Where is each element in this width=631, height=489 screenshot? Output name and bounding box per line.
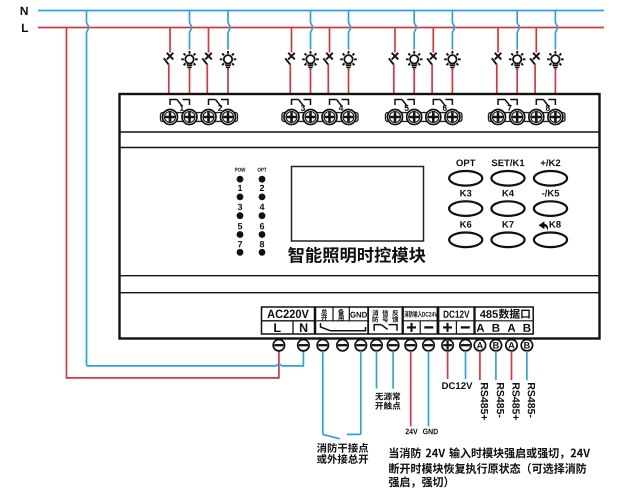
label GND (24V return) [423, 429, 438, 435]
LED indicator, row 4 left [237, 231, 244, 238]
lamp LP6 [444, 51, 461, 69]
label - (DC24V) [424, 326, 433, 328]
external master switch symbol [323, 434, 361, 438]
screw terminal 5 (channel 3) [284, 110, 299, 125]
bottom terminal RS485 B [490, 340, 501, 351]
label 485数据口 [480, 310, 498, 318]
label RS485+ (rotated) [481, 383, 488, 420]
wire: RS485+ [511, 351, 513, 380]
wire: N drop to lamp, channel 8 (hops over L bus) [555, 11, 557, 50]
terminal rail, channels 7-8 [489, 113, 565, 122]
LED number 8 [260, 241, 264, 247]
wire: DC12V- (blue) [465, 351, 467, 379]
wire: L feed drop to module L terminal [67, 28, 279, 378]
wire: N drop to lamp, channel 5 (hops over L bus) [414, 11, 416, 50]
N bus label [21, 7, 28, 15]
label + (DC12V) [443, 323, 452, 332]
wire: DC24V- (blue) [428, 351, 430, 426]
label RS485- (rotated) [497, 383, 504, 417]
wire: switch to relay terminal 9 [393, 64, 395, 100]
terminal label box 总开/备用/GND [316, 307, 369, 334]
switch S6 [427, 53, 437, 65]
LED indicator, row 3 right [259, 212, 266, 219]
screw terminal 9 (channel 5) [388, 110, 403, 125]
wire: N drop to lamp, channel 6 (hops over L bus) [452, 11, 454, 50]
screw terminal 3 (channel 2) [201, 110, 216, 125]
wire: DC24V+ (red) [410, 351, 412, 426]
wire: lamp to relay terminal 2 [189, 68, 191, 100]
switch S5 [389, 53, 399, 65]
master switch symbol between 总开 and GND [321, 323, 366, 331]
terminal label box 消防信号/反馈 [368, 307, 402, 334]
bottom terminal GND [355, 340, 366, 351]
screw terminal 12 (channel 6) [445, 110, 460, 125]
LED indicator, row 4 right [259, 231, 266, 238]
label 485 B [524, 324, 531, 332]
bottom terminal L [273, 340, 284, 351]
button SET/K1 [491, 171, 524, 186]
wire: switch to relay terminal 15 [534, 64, 536, 100]
wire: RS485- [526, 351, 528, 380]
module horizontal line (top of face panel) [120, 147, 600, 149]
LED number 3 [238, 204, 242, 210]
lamp LP4 [340, 51, 357, 69]
screw terminal 6 (channel 3) [303, 110, 318, 125]
bottom terminal DC24V- [423, 340, 434, 351]
terminal rail, channels 1-2 [161, 113, 238, 122]
wire: L drop to switch, channel 7 [497, 28, 499, 53]
relay contact K8 [536, 100, 555, 107]
label RS485- (rotated) [528, 383, 535, 417]
LED indicator, row 1 left [237, 176, 244, 183]
label 24V [406, 429, 418, 435]
LED indicator, row 5 left [237, 249, 244, 256]
button K8 [534, 233, 567, 248]
label RS485+ (rotated) [512, 383, 519, 420]
LED number 5 [238, 223, 242, 229]
label - (DC12V) [461, 326, 470, 328]
button label K4 [503, 190, 514, 197]
button label K7 [503, 221, 514, 228]
button K6 [449, 233, 482, 248]
annotation 消防干接点/或外接总开 [317, 443, 368, 464]
relay number 7 [508, 105, 512, 111]
label 485 A [477, 324, 485, 332]
lamp LP3 [302, 51, 319, 69]
module horizontal line (top of bottom terminal area) [120, 292, 600, 294]
relay contact K7 [498, 100, 517, 107]
wire: L drop to switch, channel 4 [329, 28, 331, 53]
LED number 6 [260, 223, 264, 229]
screw terminal 10 (channel 5) [407, 110, 422, 125]
LED number 7 [238, 241, 242, 247]
module outline: intelligent lighting timer module [120, 94, 600, 339]
label 反馈 [392, 310, 398, 323]
label DC12V [444, 310, 470, 317]
switch S3 [285, 53, 295, 65]
wire: L drop to switch, channel 1 [169, 28, 171, 53]
label 消防输入DC24V [404, 311, 422, 318]
relay number 3 [301, 105, 305, 111]
bottom terminal fire-signal [371, 340, 382, 351]
bottom terminal RS485 B2 [521, 340, 532, 351]
label N [300, 323, 307, 332]
screw terminal 1 (channel 1) [163, 110, 178, 125]
bottom terminal RS485 A [474, 340, 485, 351]
wire: master-on (blue) down to external switch [322, 351, 324, 434]
button K4 [491, 201, 524, 216]
wire: N bus line [38, 10, 604, 12]
LED number 4 [260, 204, 265, 210]
button K3 [449, 201, 482, 216]
wire: N drop to lamp, channel 2 (hops over L bus) [228, 11, 230, 50]
wire: N drop to lamp, channel 3 (hops over L bus) [311, 11, 313, 50]
wire: switch to relay terminal 1 [168, 64, 170, 100]
screw terminal 4 (channel 2) [221, 110, 236, 125]
lamp LP2 [220, 51, 237, 69]
bottom terminal DC12V- [460, 340, 471, 351]
LED number 1 [238, 185, 242, 191]
label GND [350, 312, 367, 318]
button -/K5 [534, 201, 567, 216]
label 485 B [493, 324, 500, 332]
wire: switch to relay terminal 13 [496, 64, 498, 100]
terminal label box DC12V [439, 307, 475, 334]
bottom terminal DC12V+ [442, 340, 453, 351]
wire: lamp to relay terminal 16 [554, 68, 556, 100]
bottom terminal RS485 A2 [506, 340, 517, 351]
wire: N feed drop to module N terminal (hops over L bus and over red wire) [87, 11, 89, 366]
relay number 6 [443, 105, 447, 111]
LED indicator, row 1 right [259, 176, 266, 183]
wire: L drop to switch, channel 3 [291, 28, 293, 53]
wire: switch to relay terminal 5 [289, 64, 291, 100]
LED column label POW [235, 168, 245, 172]
wire: L drop to switch, channel 8 [535, 28, 537, 53]
LED indicator, row 5 right [259, 249, 266, 256]
screw terminal 16 (channel 8) [548, 110, 563, 125]
relay number 8 [546, 105, 550, 111]
wire: fire-signal contact lead 2 (blue) [392, 351, 394, 389]
switch S1 [164, 53, 174, 65]
bottom terminal spare [337, 340, 348, 351]
wire: switch to relay terminal 7 [327, 64, 329, 100]
LED indicator, row 3 left [237, 212, 244, 219]
switch S7 [492, 53, 502, 65]
button label OPT [456, 159, 475, 166]
wire: RS485+ [479, 351, 481, 380]
wire: L bus line [38, 27, 604, 29]
LED indicator, row 2 left [237, 194, 244, 201]
LED number 2 [260, 185, 264, 191]
terminal label box 485数据口 [475, 307, 533, 334]
label 信号 [382, 310, 388, 323]
wire: N drop to lamp, channel 7 (hops over L bus) [517, 11, 519, 50]
label 总开 [321, 309, 327, 321]
relay contact K1 [170, 100, 190, 107]
button label +/K2 [541, 159, 561, 166]
wire: L drop to switch, channel 5 [394, 28, 396, 53]
label AC220V [267, 310, 308, 318]
wire: DC12V+ (red) [447, 351, 449, 379]
screw terminal 15 (channel 8) [529, 110, 544, 125]
wire: lamp to relay terminal 10 [413, 68, 415, 100]
LCD display window [292, 167, 424, 242]
button K7 [491, 233, 524, 248]
wire: RS485- [495, 351, 497, 380]
button label SET/K1 [492, 159, 525, 166]
label 备用 [338, 309, 344, 321]
label L [274, 323, 280, 332]
switch S2 [202, 53, 212, 65]
terminal rail, channels 5-6 [386, 113, 462, 122]
annotation paragraph about fire 24V input behaviour [389, 447, 590, 487]
lamp LP8 [547, 51, 564, 69]
relay contact K6 [433, 100, 452, 107]
relay contact K3 [292, 100, 311, 107]
button label K6 [460, 221, 471, 228]
wire: lamp to relay terminal 4 [227, 68, 229, 100]
wire: switch to relay terminal 3 [206, 64, 208, 100]
wire: N drop to lamp, channel 4 (hops over L bus) [349, 11, 351, 50]
lamp LP5 [406, 51, 423, 69]
bottom terminal feedback [387, 340, 398, 351]
module horizontal line (below top terminals) [120, 131, 600, 133]
screw terminal 7 (channel 4) [322, 110, 337, 125]
label + (DC24V) [407, 323, 416, 332]
wire: N drop to lamp, channel 1 (hops over L bus) [190, 11, 192, 50]
relay contact K5 [395, 100, 414, 107]
button +/K2 [534, 171, 567, 186]
wire: fire-signal contact lead 1 (blue) [376, 351, 378, 389]
module horizontal line (bottom of face panel) [120, 275, 600, 277]
LED indicator, row 2 right [259, 194, 266, 201]
relay contact K4 [330, 100, 349, 107]
lamp LP1 [181, 51, 198, 69]
wire: L drop to switch, channel 2 [208, 28, 210, 53]
label 消防 [372, 310, 378, 323]
wire: L drop to switch, channel 6 [432, 28, 434, 53]
bottom terminal master-on [317, 340, 328, 351]
wire: GND (blue) down to external switch [360, 351, 362, 434]
wire: lamp to relay terminal 14 [516, 68, 518, 100]
screw terminal 2 (channel 1) [182, 110, 197, 125]
terminal label box 消防输入DC24V [403, 307, 437, 334]
label DC12V (output) [442, 382, 472, 389]
wire: switch to relay terminal 11 [431, 64, 433, 100]
button label -/K5 [542, 190, 559, 197]
screw terminal 8 (channel 4) [341, 110, 356, 125]
fire-signal contact symbol [374, 325, 397, 331]
relay number 4 [339, 105, 344, 111]
button label K3 [460, 190, 471, 197]
bottom terminal N [298, 340, 309, 351]
button label K8 with return arrow [550, 221, 561, 228]
relay number 1 [180, 105, 184, 111]
annotation 无源常开触点 [375, 392, 400, 409]
screw terminal 14 (channel 7) [510, 110, 525, 125]
relay number 2 [218, 105, 222, 111]
module title text 智能照明时控模块 [288, 247, 425, 263]
LED column label OPT [258, 168, 267, 172]
bottom terminal DC24V+ [405, 340, 416, 351]
switch S8 [530, 53, 540, 65]
wire: lamp to relay terminal 8 [348, 68, 350, 100]
label 485 A [508, 324, 516, 332]
terminal label box AC220V [262, 307, 315, 334]
relay contact K2 [209, 100, 229, 107]
screw terminal 13 (channel 7) [491, 110, 506, 125]
button OPT [449, 171, 482, 186]
terminal rail, channels 3-4 [282, 113, 358, 122]
wire: lamp to relay terminal 6 [310, 68, 312, 100]
screw terminal 11 (channel 6) [426, 110, 441, 125]
switch S4 [323, 53, 333, 65]
lamp LP7 [509, 51, 526, 69]
relay number 5 [404, 105, 408, 111]
wire: lamp to relay terminal 12 [451, 68, 453, 100]
L bus label [22, 24, 28, 32]
